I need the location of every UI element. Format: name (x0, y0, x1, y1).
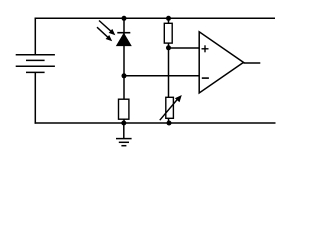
node: photodiode/R2 junction (122, 73, 127, 78)
light arrow 1 (99, 21, 115, 36)
wire op-amp output (244, 62, 261, 64)
wire inverting input (124, 75, 199, 77)
node: pot bottom junction (167, 121, 172, 126)
wire top rail (35, 17, 275, 19)
wire left vertical from battery to bottom rail (34, 72, 36, 123)
battery B1 (16, 55, 55, 73)
node: ground junction (121, 121, 126, 126)
op-amp U1 (199, 32, 243, 93)
wire noninverting input (169, 47, 200, 49)
potentiometer RV1 (160, 95, 182, 120)
photodiode D1 (117, 33, 131, 46)
wire bottom rail (35, 122, 276, 124)
light arrow 2 (97, 27, 112, 41)
node: R1/pot junction (166, 45, 171, 50)
resistor R1 (164, 23, 172, 43)
node: photodiode top junction (122, 16, 127, 21)
node: divider top junction (166, 16, 171, 21)
resistor R2 (119, 99, 129, 119)
wire photodiode column (123, 18, 125, 123)
wire left vertical from top rail to battery (34, 18, 36, 55)
wire reference divider column (168, 18, 170, 123)
ground (116, 123, 132, 146)
